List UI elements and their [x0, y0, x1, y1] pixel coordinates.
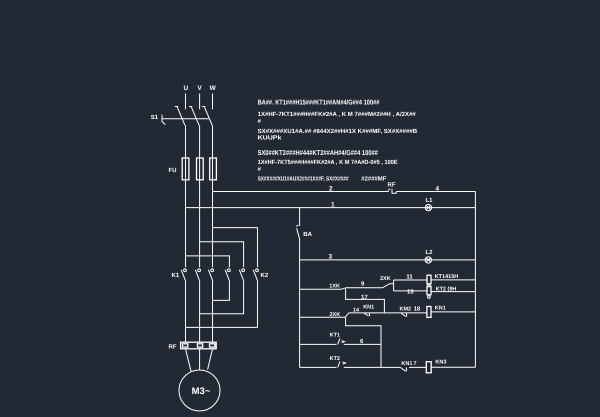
- contactor K2 label: [261, 272, 269, 279]
- note text line 3b: [258, 135, 283, 142]
- svg-text:KT1415H: KT1415H: [435, 274, 459, 280]
- svg-text:L1: L1: [426, 197, 434, 204]
- wire phase V fuse to contact K1 pole2: [199, 180, 201, 267]
- timer coil KT2: [427, 286, 456, 298]
- limit switch 2XK contact row5: [330, 312, 349, 318]
- svg-text:3: 3: [329, 253, 333, 260]
- svg-text:KN1: KN1: [435, 305, 446, 311]
- node 14 label: [353, 308, 360, 314]
- wire row 5 left: [300, 316, 346, 318]
- switch S1 pole 3 blade: [202, 106, 212, 125]
- svg-text:14: 14: [353, 308, 360, 314]
- wire node 7 to relay KN3: [409, 366, 426, 368]
- wire branch down to node 13: [393, 280, 395, 291]
- wire row 6 left: [300, 343, 337, 345]
- svg-text:SX#X###XU1#AUX2###1X##F, SX#X#: SX#X###XU1#AUX2###1X##F, SX#X####: [258, 175, 350, 182]
- relay coil KN3: [426, 360, 446, 373]
- fuse FU pole 3: [210, 158, 217, 180]
- wire row 7 mid: [344, 366, 401, 368]
- svg-text:11: 11: [406, 274, 413, 281]
- wire row 4 mid node 9: [346, 287, 383, 289]
- switch BA contact: [296, 225, 312, 239]
- timer contact KT2 NO delayed: [330, 356, 346, 367]
- node 4 label: [436, 186, 440, 193]
- svg-text:13: 13: [407, 288, 414, 295]
- svg-text:KM2: KM2: [400, 307, 412, 313]
- wire node 11 to timer KT1: [394, 279, 427, 281]
- wire link pole1-pole6: [186, 282, 258, 328]
- svg-text:W: W: [210, 85, 217, 92]
- wire left control rail lower: [299, 240, 301, 368]
- wire right rail: [474, 192, 476, 368]
- thermal overload RF heaters: [181, 342, 217, 349]
- wire branch node 17: [346, 289, 385, 313]
- svg-text:18: 18: [414, 306, 421, 313]
- thermal overload RF label: [169, 344, 177, 351]
- node W phase label: [210, 85, 217, 92]
- wire left control rail upper: [299, 208, 301, 226]
- contactor K1 pole 2: [195, 269, 200, 282]
- switch S1 pole 2 blade: [189, 106, 199, 125]
- fuse FU label: [169, 167, 177, 174]
- wire row 5 mid node 14: [349, 312, 427, 314]
- wire node 1 rail from U to right rail: [186, 207, 476, 209]
- svg-text:SX#X###XU1#A.## #844X2##H#1X K: SX#X###XU1#A.## #844X2##H#1X K###MF, SX#…: [258, 128, 418, 135]
- wire KN1 coil to right rail: [431, 311, 475, 313]
- svg-text:2XK: 2XK: [330, 312, 341, 318]
- wire RF to motor left: [186, 349, 192, 371]
- wire row 6 right node 6: [344, 343, 381, 345]
- svg-text:M3~: M3~: [192, 386, 211, 397]
- wire node 2 rail from W to RF contact: [213, 191, 389, 193]
- contactor K2 pole 4: [225, 269, 230, 282]
- wire link pole3-pole4: [213, 282, 230, 301]
- svg-text:1: 1: [331, 201, 335, 208]
- lamp L1: [425, 197, 433, 211]
- wire pole1 down to motor: [185, 282, 187, 343]
- wire tap W to K2 pole6: [213, 228, 258, 268]
- svg-text:KN3: KN3: [435, 360, 446, 366]
- note text line 4: [258, 149, 378, 157]
- svg-text:RF: RF: [169, 344, 177, 351]
- node 17 label: [361, 294, 368, 301]
- svg-text:1XK: 1XK: [329, 284, 340, 290]
- fuse FU pole 2: [197, 158, 204, 180]
- lamp L2: [425, 249, 433, 263]
- svg-text:KN1: KN1: [363, 305, 374, 311]
- node 6 label: [360, 338, 364, 345]
- svg-text:FU: FU: [169, 167, 177, 174]
- relay coil KN1: [427, 305, 446, 317]
- svg-text:RF: RF: [388, 182, 396, 189]
- wire phase W fuse to contact K1 pole3: [212, 180, 214, 267]
- wire phase V below switch: [199, 125, 201, 158]
- node 2 label: [329, 186, 333, 193]
- svg-text:2XK: 2XK: [380, 276, 391, 282]
- limit switch 1XK contact: [329, 284, 346, 290]
- svg-text:2: 2: [329, 186, 333, 193]
- wire pole3 down to motor: [212, 282, 214, 343]
- node 1 label: [331, 201, 335, 208]
- wire rail 2 after RF: [396, 191, 475, 193]
- node 9 label: [361, 281, 365, 288]
- svg-text:BA: BA: [303, 231, 312, 238]
- wire KN3 to right rail: [431, 366, 475, 368]
- wire pole2 down to motor: [199, 282, 201, 343]
- note text line 6: [258, 175, 387, 182]
- svg-text:K1: K1: [172, 272, 180, 279]
- switch S1 label: [151, 114, 159, 121]
- svg-text:SX0##KT2###H#44#KT2##AH#4/G##4: SX0##KT2###H#44#KT2##AH#4/G##4 100##: [258, 149, 378, 157]
- relay contact KN1 NC row5: [363, 305, 374, 317]
- wire link pole2-pole5: [200, 282, 244, 314]
- wire KT2 to right rail: [431, 291, 475, 293]
- svg-text:KT1: KT1: [330, 332, 340, 338]
- contactor K1 label: [172, 272, 180, 279]
- node 11 label: [406, 274, 413, 281]
- wire row 4 left: [300, 288, 342, 290]
- svg-text:KN1: KN1: [401, 361, 412, 367]
- svg-text:KT2: KT2: [330, 356, 340, 362]
- svg-text:#2###MF: #2###MF: [361, 175, 386, 182]
- wire tap U to K2 pole4: [186, 256, 230, 267]
- svg-text:7: 7: [414, 361, 417, 367]
- node V phase label: [197, 85, 202, 92]
- wire phase U below switch: [185, 125, 187, 158]
- wire row 7 left: [300, 366, 337, 368]
- wire KT1 to right rail: [431, 279, 475, 281]
- svg-text:L2: L2: [426, 249, 434, 256]
- contactor K1 pole 1: [181, 269, 186, 282]
- wire phase W top: [212, 94, 214, 110]
- wire tap V to K2 pole5: [200, 242, 244, 267]
- svg-text:U: U: [183, 85, 188, 92]
- wire node 13 to timer KT2: [394, 290, 427, 292]
- svg-text:V: V: [197, 85, 202, 92]
- note text line 1: [258, 99, 380, 107]
- overload contact RF on rail 2: [388, 182, 397, 194]
- contactor K1 pole 3: [208, 269, 213, 282]
- wire row 3: [300, 259, 476, 261]
- note text line 5: [258, 159, 398, 166]
- timer contact KT1 NO delayed: [330, 332, 345, 344]
- node 13 label: [407, 288, 414, 295]
- wire branch row5 down: [346, 317, 381, 367]
- fuse FU pole 1: [182, 158, 189, 180]
- svg-text:1X#HF-7KT5###H###FK#2#A , K M: 1X#HF-7KT5###H###FK#2#A , K M 7#A#D-0#5 …: [258, 159, 398, 166]
- wire phase W below switch: [212, 125, 214, 158]
- switch S1 linkage: [162, 115, 209, 125]
- timer coil KT1: [427, 274, 458, 287]
- node U phase label: [183, 85, 188, 92]
- relay contact KN1 node 7: [401, 361, 417, 371]
- note text line 2b: [258, 118, 262, 125]
- limit switch 2XK contact: [380, 276, 394, 288]
- contactor K2 pole 5: [239, 269, 244, 282]
- svg-text:K2: K2: [261, 272, 269, 279]
- node 3 label: [329, 253, 333, 260]
- svg-text:S1: S1: [151, 114, 159, 121]
- note text line 2: [258, 111, 417, 118]
- svg-text:1X#HF-7KT1###H##FK#2#A , K M 7: 1X#HF-7KT1###H##FK#2#A , K M 7###M#2##H …: [258, 111, 417, 118]
- svg-text:KUUPk: KUUPk: [258, 135, 283, 142]
- contactor K2 pole 6: [253, 269, 258, 282]
- wire RF to motor right: [208, 349, 213, 370]
- switch S1 pole 1 blade: [175, 106, 185, 125]
- wire phase V top: [199, 94, 201, 110]
- wire RF to motor mid: [199, 349, 201, 370]
- note text line 5b: [258, 166, 262, 173]
- wire phase U fuse to contact K1 pole1: [185, 180, 187, 267]
- note text line 3: [258, 128, 418, 135]
- wire phase U top: [185, 94, 187, 110]
- svg-text:BA##. KT1###H15###KT1##AN#4/G#: BA##. KT1###H15###KT1##AN#4/G##4 100##: [258, 99, 380, 107]
- contactor contact KM2 NC node 18: [400, 306, 421, 317]
- motor M3~: [179, 370, 220, 411]
- svg-text:17: 17: [361, 294, 368, 301]
